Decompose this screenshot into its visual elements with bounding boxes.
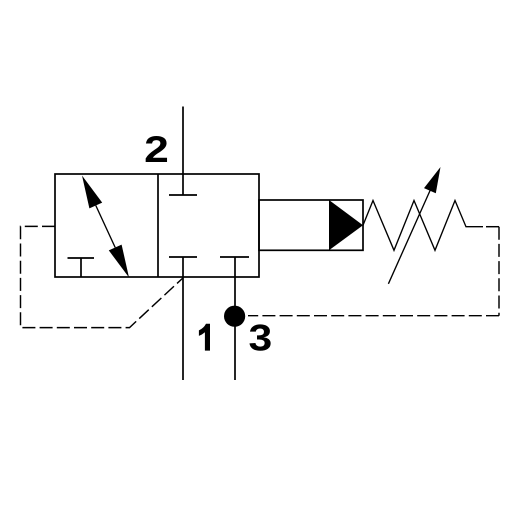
svg-text:3: 3	[249, 317, 273, 359]
svg-text:2: 2	[144, 128, 169, 170]
